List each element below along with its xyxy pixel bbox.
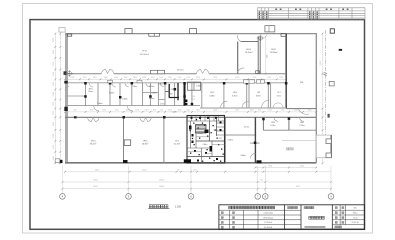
svg-text:1F7: 1F7	[277, 92, 280, 94]
svg-text:2400: 2400	[235, 77, 239, 79]
svg-text:2400: 2400	[196, 110, 200, 112]
svg-text:2700: 2700	[178, 77, 182, 79]
svg-text:1F05: 1F05	[271, 49, 277, 51]
svg-text:2250: 2250	[53, 102, 55, 106]
svg-text:2400: 2400	[268, 110, 272, 112]
svg-text:14000: 14000	[159, 186, 164, 188]
svg-text:2500: 2500	[53, 50, 55, 54]
svg-text:7500: 7500	[268, 165, 272, 167]
svg-text:2650: 2650	[53, 145, 55, 149]
svg-text:2850: 2850	[280, 77, 284, 79]
svg-text:2500: 2500	[71, 77, 75, 79]
svg-text:5450: 5450	[142, 170, 146, 172]
svg-text:1000: 1000	[159, 77, 163, 79]
svg-text:4.84m²: 4.84m²	[198, 132, 204, 135]
svg-text:2850: 2850	[133, 77, 137, 79]
svg-text:39.2m²: 39.2m²	[90, 143, 97, 146]
svg-text:2100: 2100	[266, 54, 268, 58]
svg-text:6.48m²: 6.48m²	[196, 85, 202, 88]
svg-text:2550: 2550	[53, 62, 55, 66]
svg-text:2400: 2400	[294, 110, 298, 112]
svg-text:1F06: 1F06	[246, 49, 252, 51]
svg-text:5.23m²: 5.23m²	[299, 124, 305, 127]
svg-text:6.08m²: 6.08m²	[209, 95, 215, 98]
svg-text:1F03: 1F03	[271, 122, 275, 124]
svg-text:1F13: 1F13	[142, 51, 148, 53]
svg-text:36.00m²: 36.00m²	[177, 68, 184, 71]
svg-text:2600: 2600	[73, 110, 77, 112]
svg-text:S06: S06	[353, 208, 356, 210]
svg-text:1200: 1200	[115, 110, 119, 112]
svg-text:8.8m²: 8.8m²	[256, 95, 261, 98]
svg-text:1F02: 1F02	[300, 122, 304, 124]
svg-text:2100: 2100	[267, 77, 271, 79]
svg-text:3000: 3000	[178, 110, 182, 112]
svg-text:3000: 3000	[93, 77, 97, 79]
svg-text:1F15: 1F15	[143, 140, 149, 142]
svg-text:900: 900	[281, 110, 284, 112]
svg-text:21.3m²: 21.3m²	[174, 143, 181, 146]
svg-text:1F10: 1F10	[233, 92, 237, 94]
svg-text:600: 600	[153, 110, 156, 112]
svg-text:8625: 8625	[95, 170, 99, 172]
svg-text:17.03m²: 17.03m²	[171, 110, 178, 113]
svg-text:1:100: 1:100	[353, 217, 358, 219]
svg-text:1060: 1060	[90, 110, 94, 112]
svg-text:900: 900	[160, 110, 163, 112]
svg-text:4.28m²: 4.28m²	[158, 83, 164, 86]
svg-text:2100: 2100	[53, 111, 55, 115]
svg-text:REV.1206-A: REV.1206-A	[263, 216, 273, 219]
svg-text:13050: 13050	[320, 61, 322, 66]
svg-text:750: 750	[260, 180, 263, 182]
svg-text:3200: 3200	[104, 77, 108, 79]
svg-text:19.45m²: 19.45m²	[245, 51, 253, 54]
svg-text:1000: 1000	[142, 77, 146, 79]
svg-text:1F9: 1F9	[257, 92, 260, 94]
svg-text:5000: 5000	[300, 165, 304, 167]
svg-text:S06-1: S06-1	[353, 213, 358, 215]
svg-text:600: 600	[258, 110, 261, 112]
svg-text:2400: 2400	[213, 77, 217, 79]
svg-text:3150: 3150	[135, 110, 139, 112]
svg-text:6857: 6857	[296, 186, 300, 188]
svg-text:153.45m²: 153.45m²	[140, 53, 150, 56]
svg-text:600: 600	[187, 110, 190, 112]
svg-text:8000: 8000	[93, 180, 97, 182]
svg-text:2500: 2500	[53, 92, 55, 96]
svg-text:9.05: 9.05	[219, 138, 222, 140]
svg-text:4.84m²: 4.84m²	[122, 98, 128, 101]
svg-text:2100: 2100	[186, 77, 190, 79]
svg-text:2700: 2700	[53, 134, 55, 138]
svg-text:1200: 1200	[193, 170, 197, 172]
svg-text:C2005.06-A: C2005.06-A	[263, 212, 273, 215]
svg-text:SJ.0530-A: SJ.0530-A	[264, 226, 273, 229]
svg-text:3.23m²: 3.23m²	[270, 124, 276, 127]
svg-text:1500: 1500	[151, 77, 155, 79]
svg-text:8000: 8000	[93, 186, 97, 188]
svg-text:2300: 2300	[53, 72, 55, 76]
svg-text:2100: 2100	[235, 110, 239, 112]
svg-text:5.46m²: 5.46m²	[97, 102, 103, 105]
svg-text:1000: 1000	[124, 77, 128, 79]
svg-text:750: 750	[177, 170, 180, 172]
svg-text:1000: 1000	[83, 77, 87, 79]
svg-text:2400: 2400	[145, 110, 149, 112]
svg-text:12.5m²: 12.5m²	[244, 125, 250, 128]
svg-text:2400: 2400	[168, 77, 172, 79]
svg-text:2400: 2400	[102, 110, 106, 112]
svg-text:5.46m²: 5.46m²	[109, 91, 115, 94]
svg-text:1F11: 1F11	[210, 92, 214, 94]
svg-text:3050: 3050	[53, 122, 55, 126]
svg-text:14000: 14000	[159, 180, 164, 182]
svg-text:2700: 2700	[253, 77, 257, 79]
svg-text:6.70m²: 6.70m²	[232, 95, 238, 98]
svg-text:3300: 3300	[53, 38, 55, 42]
svg-text:9.05m²: 9.05m²	[213, 129, 219, 132]
svg-text:9.0m²: 9.0m²	[277, 95, 282, 98]
svg-text:05.05.30: 05.05.30	[352, 222, 359, 224]
svg-text:2400: 2400	[250, 110, 254, 112]
svg-text:2400: 2400	[308, 110, 312, 112]
svg-text:4.73m²: 4.73m²	[160, 103, 166, 106]
svg-text:1.58m²: 1.58m²	[132, 85, 138, 88]
svg-text:3.66m²: 3.66m²	[152, 91, 158, 94]
svg-text:9.58m²: 9.58m²	[228, 139, 234, 142]
svg-text:2400: 2400	[213, 110, 217, 112]
svg-text:27.02: 27.02	[191, 99, 195, 101]
svg-text:3350: 3350	[196, 77, 200, 79]
svg-text:6.84m²: 6.84m²	[240, 154, 246, 157]
svg-text:27.03: 27.03	[191, 96, 195, 98]
svg-text:4.28m²: 4.28m²	[149, 85, 155, 88]
svg-text:26.8m²: 26.8m²	[142, 143, 149, 146]
svg-text:2500: 2500	[53, 82, 55, 86]
svg-text:1F14: 1F14	[91, 140, 97, 142]
svg-text:25.88m²: 25.88m²	[270, 51, 278, 54]
svg-text:1F01: 1F01	[88, 88, 92, 90]
svg-text:2500: 2500	[114, 77, 118, 79]
svg-text:1:100: 1:100	[175, 206, 182, 209]
svg-text:5.66m²: 5.66m²	[149, 97, 155, 100]
svg-text:7.46m²: 7.46m²	[88, 90, 94, 93]
svg-text:JT.0506-A: JT.0506-A	[264, 221, 272, 224]
